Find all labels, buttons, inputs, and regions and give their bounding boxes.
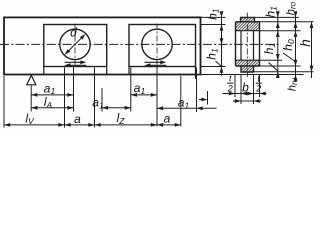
extension line shoulder bottom [260,30,301,32]
extension line housing bottom [201,74,304,76]
extension line lower band bottom [260,65,301,67]
slot side lines block 1 [43,67,45,75]
extension line travel end [180,76,182,127]
dimension a1 row2 right [157,96,217,111]
vertical center line circle 2 [156,24,158,65]
cross-section view [236,13,260,78]
dimension column B: hro ho hru [281,1,299,91]
dimension t/2 b t/2 [223,74,267,103]
dimension a1 row1 right [131,81,157,97]
extension line lower shoulder top [260,59,283,61]
dimension a1 row1 left [31,81,73,97]
extension line housing top [201,16,226,18]
slide block 1 [44,25,107,67]
dimension a1 row2 middle [92,96,131,111]
main horizontal center line [0,43,281,45]
extension line tongue left [240,74,242,104]
bore circle 2 [142,29,172,59]
svg-text:d: d [70,26,77,40]
svg-text:2: 2 [255,84,261,94]
hatch bottom tongue [241,66,254,72]
extension line section left [234,74,236,97]
support triangle symbol [27,75,36,85]
extension line block bottom [201,66,226,68]
extension line mid position [101,88,103,112]
hatch bottom band [236,60,260,66]
dimension column A: h1 h1 right [262,6,280,78]
motion symbol block 1 [64,60,86,67]
dimension column C: h [298,22,313,78]
bore circle 1 [60,29,90,59]
section vertical center line [246,13,248,78]
dimension row3: lV a lZ a [4,111,181,127]
extension line at housing left edge [3,76,5,128]
extension line stroke start [64,68,66,128]
svg-text:a: a [74,112,81,126]
section outline [241,17,255,21]
extension line block 2 right [196,68,198,113]
extension line shoulder top [260,21,314,23]
extension line circle 1 center [73,67,75,112]
diameter dimension d in circle 1 [63,26,86,57]
extension line circle 2 center [156,67,158,127]
vertical center line circle 1 [74,24,76,65]
housing outline (left view) [4,17,201,74]
dimension lA row2 [31,95,73,110]
svg-text:b: b [242,81,249,95]
extension line section right [259,74,261,97]
extension line at support point [30,86,32,112]
extension line block 2 left [130,68,132,112]
extension line tongue right [253,74,255,104]
extension line block top [201,24,226,26]
svg-text:a: a [164,112,171,126]
hatch top tongue [241,17,255,21]
slide block 2 [129,25,196,67]
extension line lower tongue bottom [254,71,314,73]
dimension column h1 h1 left view [205,8,224,75]
extension line stroke end [94,68,96,128]
slot side lines block 2 [128,67,130,75]
svg-text:2: 2 [227,84,233,94]
svg-text:h: h [298,39,313,47]
motion symbol block 2 [144,60,166,67]
hatch top band [236,22,260,31]
extension line auxiliary position [207,91,209,105]
extension line tongue top [255,16,300,18]
